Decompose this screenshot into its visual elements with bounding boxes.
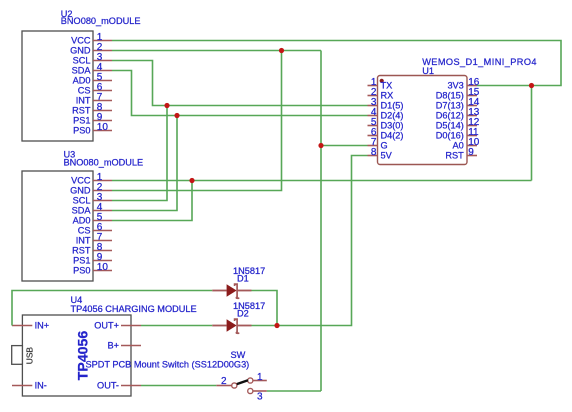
svg-text:10: 10 (97, 262, 109, 273)
wire VIN: U4 IN+ up to D1 anode (12, 291, 212, 326)
svg-text:SCL: SCL (73, 196, 91, 206)
junction GND at U2 GND / U3 GND branch (279, 48, 284, 53)
svg-text:SDA: SDA (72, 206, 92, 216)
pin 10 PS0 of U2 (73, 122, 112, 136)
pin 2 RX of U1 (368, 87, 394, 101)
svg-text:OUT-: OUT- (97, 381, 119, 391)
svg-text:3V3: 3V3 (447, 81, 463, 91)
pin 8 RST of U2 (72, 102, 112, 116)
svg-text:INT: INT (76, 96, 91, 106)
svg-text:VCC: VCC (71, 36, 91, 46)
pin 9 RST of U1 (445, 147, 477, 161)
wire GND: main vertical down to switch (320, 51, 322, 392)
wire GND: branch to U3 GND (112, 51, 282, 191)
pin 4 SDA of U3 (72, 202, 112, 216)
svg-text:D6(12): D6(12) (436, 111, 464, 121)
svg-text:10: 10 (97, 122, 109, 133)
svg-text:VCC: VCC (71, 176, 91, 186)
junction VCC/AD0 on U3 (189, 178, 194, 183)
svg-text:5V: 5V (381, 151, 393, 161)
svg-text:D2(4): D2(4) (381, 111, 404, 121)
svg-text:GND: GND (70, 46, 91, 56)
pin 11 D0(16) of U1 (436, 127, 479, 141)
wire VCC: U2 VCC to top-right corner down to U1 3V3 (112, 41, 561, 86)
pin 8 5V of U1 (368, 147, 393, 161)
svg-text:9: 9 (468, 147, 474, 158)
diode D1 1N5817 schottky (212, 266, 265, 298)
switch SW SPDT (SS12D00G3) (86, 350, 267, 403)
svg-text:WEMOS_D1_MINI_PRO4: WEMOS_D1_MINI_PRO4 (422, 57, 537, 67)
pin 2 GND of U2 (70, 42, 112, 56)
IC U4 TP4056 CHARGING MODULE (22, 295, 196, 396)
pin OUT+ of U4 (94, 321, 141, 331)
svg-text:PS0: PS0 (73, 126, 90, 136)
pin 2 GND of U3 (70, 182, 112, 196)
junction SDA branch (174, 113, 179, 118)
junction VCC at 3V3 riser (529, 83, 534, 88)
svg-text:TP4056: TP4056 (75, 331, 91, 381)
svg-text:D8(15): D8(15) (436, 91, 464, 101)
svg-text:INT: INT (76, 236, 91, 246)
svg-text:USB: USB (25, 347, 35, 365)
wire OUT+: U4 OUT+ to D2 anode (141, 325, 212, 327)
pin 7 INT of U3 (76, 232, 112, 246)
svg-text:A0: A0 (453, 141, 464, 151)
wire 5V: U1 5V pin to diode cathodes (252, 156, 368, 326)
svg-text:CS: CS (78, 86, 91, 96)
pin 1 VCC of U3 (71, 172, 112, 186)
svg-text:1: 1 (257, 372, 263, 383)
svg-text:RX: RX (381, 91, 394, 101)
pin 6 CS of U2 (78, 82, 112, 96)
svg-text:AD0: AD0 (73, 216, 91, 226)
pin 7 INT of U2 (76, 92, 112, 106)
svg-text:RST: RST (72, 106, 91, 116)
pin 1 TX of U1 (368, 77, 393, 91)
svg-text:U1: U1 (422, 66, 434, 76)
svg-text:SCL: SCL (73, 56, 91, 66)
svg-text:BNO080_mODULE: BNO080_mODULE (61, 16, 141, 26)
svg-text:OUT+: OUT+ (94, 321, 119, 331)
pin 10 PS0 of U3 (73, 262, 112, 276)
svg-text:SPDT PCB Mount Switch (SS12D00: SPDT PCB Mount Switch (SS12D00G3) (86, 360, 250, 370)
pin B+ of U4 (108, 341, 142, 351)
svg-text:RST: RST (72, 246, 91, 256)
svg-text:3: 3 (257, 392, 263, 403)
junction GND at U1 G branch (318, 143, 323, 148)
svg-text:CS: CS (78, 226, 91, 236)
pin 3 SCL of U3 (73, 192, 112, 206)
pin 9 PS1 of U2 (73, 112, 112, 126)
svg-text:2: 2 (221, 376, 227, 387)
wire OUT-: U4 OUT- to switch pin2 (141, 385, 216, 387)
svg-text:IN+: IN+ (35, 321, 50, 331)
wire 5V: D1 cathode down to 5V line (252, 291, 278, 326)
svg-text:B+: B+ (108, 341, 120, 351)
svg-text:PS1: PS1 (73, 256, 90, 266)
svg-text:SDA: SDA (72, 66, 92, 76)
wire SDA: U2 SDA to U1 D2(4) (112, 71, 368, 116)
svg-text:RST: RST (445, 151, 464, 161)
wire VCC: U3 VCC to right riser (112, 180, 532, 182)
wire VCC: junction down to U3 VCC row (531, 86, 533, 181)
svg-text:D1(5): D1(5) (381, 101, 404, 111)
pin 9 PS1 of U3 (73, 252, 112, 266)
svg-text:8: 8 (371, 147, 377, 158)
pin IN- of U4 (12, 381, 47, 391)
pin 14 D7(13) of U1 (436, 97, 480, 111)
pin 8 RST of U3 (72, 242, 112, 256)
pin 13 D6(12) of U1 (436, 107, 480, 121)
pin 3 D1(5) of U1 (368, 97, 404, 111)
pin 5 AD0 of U3 (73, 212, 112, 226)
svg-text:SW: SW (231, 350, 246, 360)
wire SCL: U2 SCL to U1 D1(5) (112, 61, 368, 106)
svg-text:IN-: IN- (35, 381, 47, 391)
pin 4 D2(4) of U1 (368, 107, 404, 121)
svg-text:BNO080_mODULE: BNO080_mODULE (64, 158, 144, 168)
svg-text:D3(0): D3(0) (381, 121, 404, 131)
svg-text:D5(14): D5(14) (436, 121, 464, 131)
svg-text:D4(2): D4(2) (381, 131, 404, 141)
pin 1 VCC of U2 (71, 32, 112, 46)
svg-text:PS1: PS1 (73, 116, 90, 126)
pin 4 SDA of U2 (72, 62, 112, 76)
wire GND: switch pin3 to vertical (267, 390, 321, 392)
pin IN+ of U4 (12, 321, 49, 331)
USB connector symbol of U4 (12, 346, 35, 365)
pin 7 G of U1 (368, 137, 388, 151)
pin 3 SCL of U2 (73, 52, 112, 66)
svg-text:D7(13): D7(13) (436, 101, 464, 111)
pin 16 3V3 of U1 (447, 77, 479, 91)
pin 15 D8(15) of U1 (436, 87, 480, 101)
svg-text:D2: D2 (237, 309, 249, 319)
diode D2 1N5817 schottky (212, 301, 265, 333)
svg-text:TP4056 CHARGING MODULE: TP4056 CHARGING MODULE (71, 304, 197, 314)
svg-text:GND: GND (70, 186, 91, 196)
pin 5 AD0 of U2 (73, 72, 112, 86)
svg-text:G: G (381, 141, 388, 151)
IC U1 WEMOS_D1_MINI_PRO4 (368, 57, 537, 165)
pin 12 D5(14) of U1 (436, 117, 480, 131)
svg-text:TX: TX (381, 81, 393, 91)
pin 10 A0 of U1 (453, 137, 480, 151)
wire SCL: branch to U3 SCL (112, 106, 167, 201)
pin OUT- of U4 (97, 381, 141, 391)
pin 6 CS of U3 (78, 222, 112, 236)
wire VCC: AD0 tie to VCC on U3 (112, 181, 192, 221)
svg-text:AD0: AD0 (73, 76, 91, 86)
pin 6 D4(2) of U1 (368, 127, 404, 141)
junction SCL branch (164, 103, 169, 108)
pin 5 D3(0) of U1 (368, 117, 404, 131)
wire GND: U2 GND horizontal (112, 50, 321, 52)
svg-text:D1: D1 (237, 274, 249, 284)
wire GND: branch to U1 G pin (321, 145, 368, 147)
svg-text:PS0: PS0 (73, 266, 90, 276)
IC U2 BNO080_mODULE (22, 9, 140, 141)
svg-text:D0(16): D0(16) (436, 131, 464, 141)
IC U3 BNO080_mODULE (22, 150, 143, 282)
wire SDA: branch to U3 SDA (112, 116, 177, 211)
junction 5V diode cathodes (274, 323, 279, 328)
